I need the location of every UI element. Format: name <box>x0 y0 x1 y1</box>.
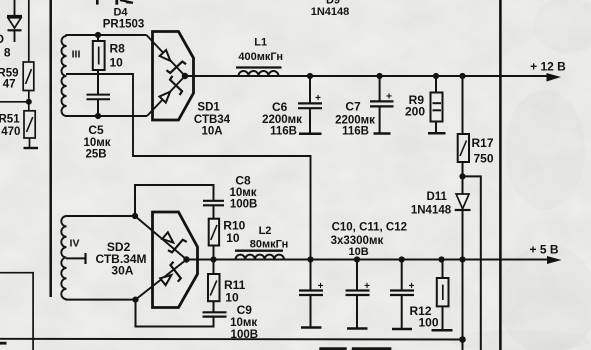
svg-text:C6: C6 <box>272 100 288 114</box>
wire R17 to node <box>462 162 464 194</box>
wire rail to R17 <box>462 76 464 134</box>
svg-text:10: 10 <box>110 56 124 70</box>
capacitor C10 <box>299 260 324 327</box>
capacitor C6 <box>298 76 322 133</box>
label D9 1N4148 <box>311 0 350 18</box>
ground under C11 <box>347 327 368 330</box>
label C9 10мк 100В <box>230 303 258 341</box>
label SD2 СТВ.34М 30А <box>95 240 146 278</box>
resistor R8 <box>93 35 105 70</box>
winding III <box>62 36 67 116</box>
node SD1 output <box>182 73 188 79</box>
transformer core <box>49 0 52 297</box>
svg-text:47: 47 <box>3 79 16 91</box>
svg-text:80мкГн: 80мкГн <box>250 239 288 251</box>
svg-text:R17: R17 <box>472 136 494 150</box>
wire +12V rail <box>185 75 548 77</box>
arrow +5V output <box>547 256 562 264</box>
wire winding III centre tap to +5V rail <box>66 74 311 260</box>
node SD2 output <box>183 256 189 262</box>
svg-text:D: D <box>0 32 4 46</box>
ground under R9 <box>428 132 446 135</box>
capacitor C9 <box>203 312 227 316</box>
wire +5V rail <box>187 259 549 261</box>
svg-text:100: 100 <box>418 316 438 330</box>
svg-text:10мк: 10мк <box>229 187 256 199</box>
svg-text:+ 5 В: + 5 В <box>529 243 558 257</box>
node D11 on +5V rail <box>459 256 465 262</box>
wire winding III bottom lead <box>66 115 148 117</box>
ground under R51 <box>24 147 39 149</box>
svg-text:+: + <box>386 92 392 103</box>
wire jog right from node <box>463 176 481 350</box>
label R10 10 <box>223 219 245 246</box>
node R10/R11 on rail <box>210 256 216 262</box>
svg-text:10мк: 10мк <box>83 137 110 149</box>
label L2 80мкГн <box>250 225 288 251</box>
label D4 PR1503 <box>103 7 145 31</box>
svg-text:L2: L2 <box>259 225 272 237</box>
wire bottom return rail <box>0 338 463 341</box>
svg-text:+ 12 В: + 12 В <box>530 60 566 74</box>
svg-text:D11: D11 <box>426 191 447 203</box>
wire R8 to C5 <box>97 70 99 94</box>
wire to C8 <box>135 185 214 216</box>
svg-text:PR1503: PR1503 <box>103 19 145 31</box>
label D11 1N4148 <box>411 191 452 217</box>
inductor L1 <box>236 68 282 77</box>
capacitor C8 <box>203 201 224 219</box>
svg-text:IV: IV <box>70 238 80 250</box>
label C6 2200мк 116В <box>262 100 302 138</box>
svg-text:+: + <box>409 281 415 292</box>
node winding IV bottom / C9 drop <box>132 297 138 303</box>
svg-text:470: 470 <box>1 126 20 138</box>
SD2 upper diode <box>135 216 187 260</box>
wire winding III top lead <box>66 34 147 36</box>
ground under C6 <box>299 133 322 136</box>
bridge rectifier SD1 outline <box>153 32 194 121</box>
svg-text:10В: 10В <box>349 246 369 258</box>
label R8 10 <box>110 42 126 70</box>
wire R51 to ground <box>29 138 31 148</box>
wire D11 column down to bottom rail <box>462 260 464 350</box>
label R11 10 <box>224 278 246 305</box>
diode D8 (partially cropped pair at top-left) <box>7 0 22 42</box>
svg-text:+: + <box>318 281 324 292</box>
label C8 10мк 100В <box>229 174 257 211</box>
node R59/R51 <box>26 99 32 105</box>
resistor R11 <box>208 260 220 313</box>
wire winding IV bottom lead <box>66 299 136 301</box>
capacitor C7 <box>370 76 394 133</box>
node C11 on rail <box>354 256 360 262</box>
node R9 on rail <box>433 73 439 79</box>
capacitor C11 <box>346 260 371 328</box>
svg-text:R51: R51 <box>0 114 20 126</box>
wire winding IV top lead <box>66 215 136 217</box>
label III <box>72 49 81 61</box>
svg-text:116В: 116В <box>342 126 369 138</box>
diode D4 (cropped at top) <box>97 0 133 5</box>
cropped block bar 2 at bottom <box>352 347 392 350</box>
cropped block bar 1 at bottom <box>319 347 346 350</box>
label R12 100 <box>409 304 438 330</box>
svg-text:1N4148: 1N4148 <box>311 6 350 18</box>
label C10, C11, C12 3x3300мк 10В <box>331 222 407 259</box>
svg-text:200: 200 <box>405 105 425 119</box>
winding IV centre tap stub <box>66 253 86 264</box>
label D8 <box>0 32 11 60</box>
svg-text:2200мк: 2200мк <box>262 114 302 126</box>
label +5В <box>529 243 558 257</box>
label C7 2200мк 116В <box>335 100 375 138</box>
SD1 upper diode <box>147 35 187 77</box>
label R51 470 <box>0 114 20 139</box>
SD1 lower diode <box>147 76 186 116</box>
svg-text:+: + <box>364 281 370 292</box>
svg-text:400мкГн: 400мкГн <box>238 51 283 63</box>
svg-text:L1: L1 <box>254 37 267 49</box>
SD2 lower diode <box>136 260 187 300</box>
node C6 on rail <box>307 73 313 79</box>
bottom-left cropped mark <box>0 342 7 345</box>
label IV <box>70 238 80 250</box>
resistor R10 <box>209 219 219 260</box>
node C5 / winding III bottom <box>95 113 101 119</box>
diode D11 <box>455 194 471 260</box>
node R17/D11 <box>459 173 465 179</box>
label R17 750 <box>472 136 494 166</box>
svg-text:R8: R8 <box>110 42 126 56</box>
svg-text:1N4148: 1N4148 <box>411 205 452 217</box>
node C7 on rail <box>377 73 383 79</box>
svg-text:C10, C11, C12: C10, C11, C12 <box>332 222 407 234</box>
svg-text:750: 750 <box>474 152 494 166</box>
ground under C7 <box>374 132 391 135</box>
ground under C10 <box>301 326 322 329</box>
svg-text:III: III <box>72 49 81 61</box>
resistor R51 <box>24 111 35 138</box>
ground under R12 <box>432 329 453 332</box>
svg-text:10А: 10А <box>201 126 222 138</box>
label L1 400мкГн <box>238 37 283 64</box>
arrow +12V output <box>547 73 562 82</box>
node R17 on rail <box>459 73 465 79</box>
node winding III / D4 / R8 <box>95 32 101 38</box>
svg-text:C5: C5 <box>88 123 104 137</box>
vertical line x=500 full height <box>499 0 502 350</box>
svg-text:SD1: SD1 <box>197 102 220 114</box>
wire to C9 bottom <box>136 300 214 327</box>
svg-text:30А: 30А <box>111 264 133 278</box>
svg-text:10мк: 10мк <box>230 317 257 329</box>
node R12 on rail <box>438 256 444 262</box>
inductor L2 <box>235 251 284 260</box>
svg-text:C7: C7 <box>345 100 361 114</box>
bridge rectifier SD2 outline <box>153 212 198 308</box>
capacitor C5 <box>87 95 111 116</box>
node winding IV top / C8 riser <box>132 213 138 219</box>
svg-text:D4: D4 <box>113 7 128 19</box>
svg-text:C8: C8 <box>235 174 251 188</box>
label R9 200 <box>405 93 425 119</box>
label +12В <box>530 60 566 74</box>
node C12 on rail <box>399 256 405 262</box>
node C10 on rail <box>307 256 313 262</box>
svg-text:8: 8 <box>4 46 11 60</box>
svg-text:+: + <box>315 93 321 104</box>
wire R59 to node <box>28 91 30 111</box>
ground under C12 <box>392 328 412 331</box>
node bottom rail / D11 column <box>459 336 466 343</box>
wire to R59 from top <box>28 0 30 62</box>
resistor R59 <box>23 62 34 91</box>
svg-text:10: 10 <box>226 231 240 245</box>
svg-text:100В: 100В <box>230 199 258 211</box>
resistor R9 <box>431 76 443 132</box>
capacitor C12 <box>390 260 415 329</box>
svg-text:116В: 116В <box>270 126 297 138</box>
label C5 10мк 25В <box>83 123 110 161</box>
wire left-edge horizontal from R59/R51 node <box>0 101 29 103</box>
resistor R17 <box>458 134 469 162</box>
label SD1 СТВ34 10А <box>194 102 231 138</box>
left block outline corner <box>0 273 33 350</box>
svg-text:C9: C9 <box>237 303 253 317</box>
winding IV <box>61 216 66 299</box>
svg-text:25В: 25В <box>85 149 106 161</box>
resistor R12 <box>437 260 449 330</box>
svg-text:СТВ34: СТВ34 <box>194 114 231 126</box>
label R59 47 <box>0 68 19 91</box>
